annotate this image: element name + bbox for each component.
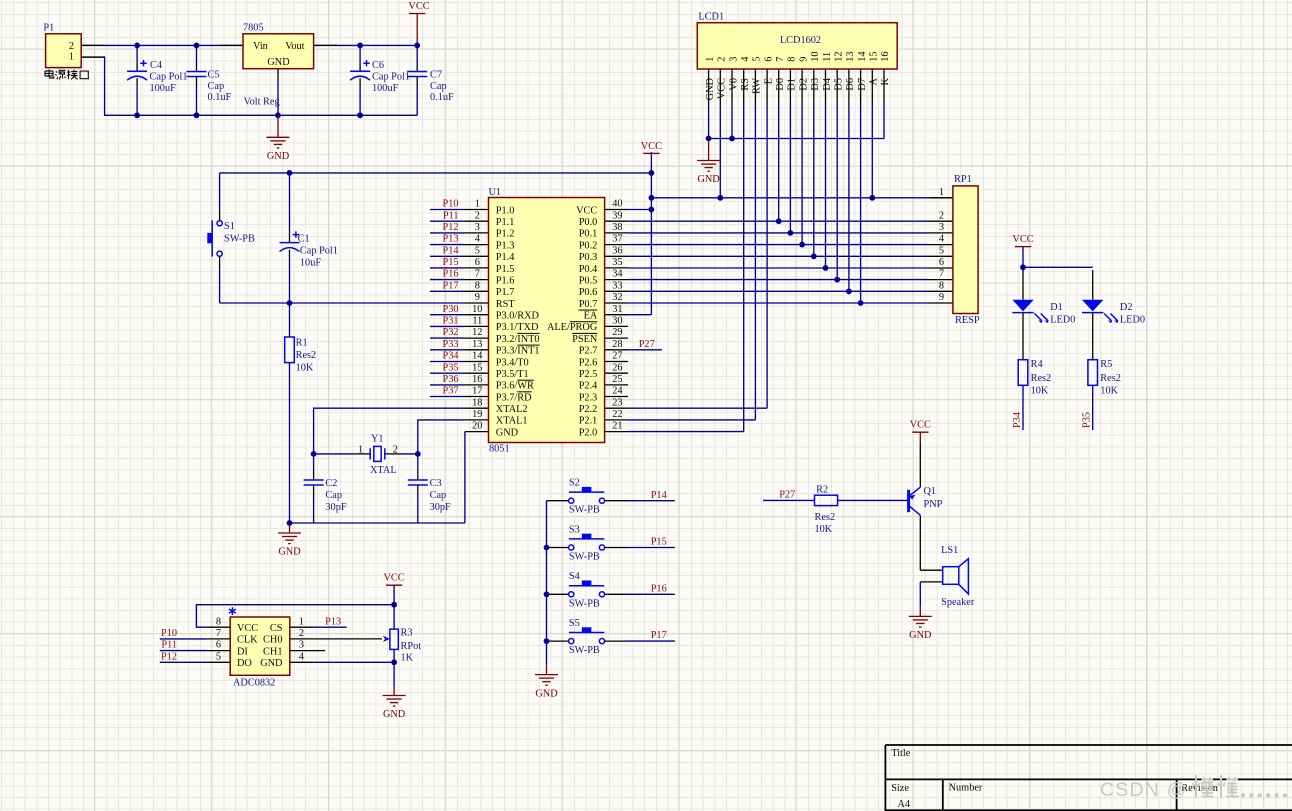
svg-text:28: 28 <box>612 339 622 350</box>
svg-text:5: 5 <box>752 57 763 62</box>
svg-text:R5: R5 <box>1100 359 1112 370</box>
svg-text:P12: P12 <box>161 651 177 662</box>
svg-text:100uF: 100uF <box>150 83 177 94</box>
svg-text:P1.7: P1.7 <box>496 287 515 298</box>
svg-text:100uF: 100uF <box>372 83 399 94</box>
svg-text:P2.3: P2.3 <box>579 392 598 403</box>
svg-text:8: 8 <box>475 280 480 291</box>
svg-text:10K: 10K <box>1031 386 1049 397</box>
svg-text:XTAL1: XTAL1 <box>496 416 528 427</box>
svg-text:38: 38 <box>612 222 622 233</box>
svg-text:8051: 8051 <box>489 443 510 454</box>
svg-text:2: 2 <box>393 444 398 455</box>
svg-text:Vin: Vin <box>253 41 268 52</box>
svg-text:P0.2: P0.2 <box>579 240 598 251</box>
svg-text:P3.2/INT0: P3.2/INT0 <box>496 334 540 345</box>
svg-text:P3.6/WR: P3.6/WR <box>496 381 534 392</box>
svg-text:9: 9 <box>475 292 480 303</box>
svg-text:1: 1 <box>299 616 304 627</box>
svg-text:S2: S2 <box>569 478 580 489</box>
svg-text:C1: C1 <box>298 233 310 244</box>
svg-text:Res2: Res2 <box>296 350 317 361</box>
svg-text:3: 3 <box>939 222 944 233</box>
svg-text:DO: DO <box>237 658 252 669</box>
svg-text:3: 3 <box>475 222 480 233</box>
svg-text:SW-PB: SW-PB <box>569 552 600 563</box>
svg-text:A4: A4 <box>898 799 911 810</box>
svg-text:P2.6: P2.6 <box>579 357 598 368</box>
svg-text:GND: GND <box>909 630 932 641</box>
svg-text:CSDN @: CSDN @ <box>1100 779 1188 801</box>
svg-text:VCC: VCC <box>717 78 728 99</box>
svg-text:P12: P12 <box>442 222 458 233</box>
svg-text:P35: P35 <box>442 362 458 373</box>
svg-text:2: 2 <box>939 210 944 221</box>
svg-text:5: 5 <box>939 245 944 256</box>
svg-text:20: 20 <box>472 421 482 432</box>
svg-text:C4: C4 <box>150 60 162 71</box>
svg-text:XTAL: XTAL <box>370 465 397 476</box>
svg-text:4: 4 <box>299 651 304 662</box>
svg-text:15: 15 <box>869 52 880 62</box>
svg-text:32: 32 <box>612 292 622 303</box>
svg-text:P34: P34 <box>442 351 458 362</box>
svg-text:14: 14 <box>857 52 868 62</box>
svg-text:C5: C5 <box>208 69 220 80</box>
svg-text:Cap Pol1: Cap Pol1 <box>300 246 338 257</box>
svg-text:P0.4: P0.4 <box>579 264 598 275</box>
svg-text:P16: P16 <box>651 583 667 594</box>
svg-text:Y1: Y1 <box>371 433 384 444</box>
svg-text:4: 4 <box>939 234 944 245</box>
svg-text:Cap Pol1: Cap Pol1 <box>372 72 410 83</box>
svg-text:K: K <box>880 77 891 85</box>
svg-text:P2.0: P2.0 <box>579 427 598 438</box>
svg-text:6: 6 <box>763 57 774 62</box>
svg-text:1: 1 <box>939 187 944 198</box>
svg-text:P0.1: P0.1 <box>579 229 598 240</box>
svg-text:D6: D6 <box>845 78 856 91</box>
svg-text:18: 18 <box>472 397 482 408</box>
svg-text:30pF: 30pF <box>430 502 451 513</box>
svg-text:7805: 7805 <box>243 22 264 33</box>
svg-text:P1.2: P1.2 <box>496 229 515 240</box>
svg-text:P34: P34 <box>1012 412 1023 428</box>
svg-text:VCC: VCC <box>1012 234 1033 245</box>
svg-text:11: 11 <box>472 316 482 327</box>
svg-text:GND: GND <box>697 174 720 185</box>
svg-text:RST: RST <box>496 299 516 310</box>
svg-text:21: 21 <box>612 421 622 432</box>
svg-text:LCD1602: LCD1602 <box>780 35 821 46</box>
svg-text:RESP: RESP <box>955 315 980 326</box>
svg-text:R2: R2 <box>816 485 828 496</box>
svg-text:P1.6: P1.6 <box>496 275 515 286</box>
svg-text:P27: P27 <box>779 490 795 501</box>
svg-text:5: 5 <box>216 651 221 662</box>
svg-text:V0: V0 <box>728 78 739 91</box>
svg-text:Title: Title <box>891 748 911 759</box>
svg-text:P0.0: P0.0 <box>579 217 598 228</box>
svg-text:P2.1: P2.1 <box>579 416 598 427</box>
svg-text:D3: D3 <box>810 78 821 91</box>
svg-text:5: 5 <box>475 245 480 256</box>
svg-text:P3.0/RXD: P3.0/RXD <box>496 311 540 322</box>
svg-text:10: 10 <box>472 304 482 315</box>
svg-text:10: 10 <box>810 52 821 62</box>
svg-text:SW-PB: SW-PB <box>224 234 255 245</box>
svg-text:P3.5/T1: P3.5/T1 <box>496 369 529 380</box>
svg-text:GND: GND <box>278 547 301 558</box>
svg-text:15: 15 <box>472 362 482 373</box>
svg-text:P2.7: P2.7 <box>579 346 598 357</box>
svg-text:C7: C7 <box>430 69 442 80</box>
svg-text:GND: GND <box>496 427 519 438</box>
svg-text:CH0: CH0 <box>263 635 282 646</box>
svg-text:26: 26 <box>612 362 622 373</box>
svg-text:R3: R3 <box>401 628 413 639</box>
svg-text:3: 3 <box>299 640 304 651</box>
svg-text:R1: R1 <box>296 338 308 349</box>
svg-text:P1.3: P1.3 <box>496 240 515 251</box>
svg-text:P3.1/TXD: P3.1/TXD <box>496 322 539 333</box>
svg-text:29: 29 <box>612 327 622 338</box>
svg-text:P2.5: P2.5 <box>579 369 598 380</box>
svg-text:7: 7 <box>475 269 480 280</box>
svg-text:D4: D4 <box>822 78 833 91</box>
svg-text:Cap: Cap <box>430 81 447 92</box>
svg-text:8: 8 <box>216 616 221 627</box>
svg-text:0.1uF: 0.1uF <box>208 92 232 103</box>
svg-text:VCC: VCC <box>576 205 597 216</box>
svg-text:2: 2 <box>717 57 728 62</box>
svg-text:GND: GND <box>260 658 283 669</box>
svg-text:PNP: PNP <box>924 499 943 510</box>
svg-text:P27: P27 <box>639 339 655 350</box>
svg-text:Res2: Res2 <box>1031 373 1052 384</box>
svg-text:D1: D1 <box>1050 302 1063 313</box>
svg-text:4: 4 <box>475 234 480 245</box>
svg-text:13: 13 <box>472 339 482 350</box>
svg-text:GND: GND <box>267 57 290 68</box>
svg-text:27: 27 <box>612 351 622 362</box>
svg-text:GND: GND <box>383 709 406 720</box>
svg-text:4: 4 <box>740 57 751 62</box>
svg-text:C6: C6 <box>372 60 384 71</box>
svg-text:P3.4/T0: P3.4/T0 <box>496 357 529 368</box>
svg-text:RS: RS <box>740 78 751 91</box>
svg-text:Res2: Res2 <box>815 512 836 523</box>
svg-text:P2.4: P2.4 <box>579 381 598 392</box>
svg-text:2: 2 <box>299 628 304 639</box>
svg-text:12: 12 <box>472 327 482 338</box>
svg-text:Vout: Vout <box>285 41 304 52</box>
svg-text:RP1: RP1 <box>954 174 972 185</box>
svg-text:CS: CS <box>270 623 283 634</box>
svg-text:3: 3 <box>728 57 739 62</box>
svg-text:Res2: Res2 <box>1100 373 1121 384</box>
svg-text:Q1: Q1 <box>924 486 937 497</box>
svg-text:1K: 1K <box>401 653 414 664</box>
svg-text:36: 36 <box>612 245 622 256</box>
svg-text:6: 6 <box>939 257 944 268</box>
svg-text:VCC: VCC <box>641 141 662 152</box>
svg-text:XTAL2: XTAL2 <box>496 404 528 415</box>
svg-text:ALE/PROG: ALE/PROG <box>547 322 598 333</box>
svg-text:10K: 10K <box>1100 386 1118 397</box>
svg-text:P11: P11 <box>161 640 177 651</box>
svg-text:RPot: RPot <box>401 641 422 652</box>
svg-text:P32: P32 <box>442 327 458 338</box>
svg-text:P35: P35 <box>1082 412 1093 428</box>
svg-text:14: 14 <box>472 351 482 362</box>
svg-text:Cap Pol1: Cap Pol1 <box>150 72 188 83</box>
svg-text:D0: D0 <box>775 78 786 91</box>
svg-text:CH1: CH1 <box>263 646 282 657</box>
svg-text:D1: D1 <box>787 78 798 91</box>
svg-text:P14: P14 <box>651 490 667 501</box>
svg-text:Cap: Cap <box>430 490 447 501</box>
svg-text:Speaker: Speaker <box>941 597 975 608</box>
svg-text:P3.3/INT1: P3.3/INT1 <box>496 346 540 357</box>
svg-text:D2: D2 <box>1120 302 1133 313</box>
svg-text:19: 19 <box>472 409 482 420</box>
svg-text:7: 7 <box>216 628 221 639</box>
svg-text:P1: P1 <box>43 22 54 33</box>
svg-text:30pF: 30pF <box>325 502 346 513</box>
svg-text:SW-PB: SW-PB <box>569 598 600 609</box>
svg-text:D5: D5 <box>834 78 845 91</box>
svg-text:PSEN: PSEN <box>572 334 598 345</box>
svg-text:12: 12 <box>834 52 845 62</box>
svg-text:C2: C2 <box>325 478 337 489</box>
svg-text:1: 1 <box>705 57 716 62</box>
svg-text:EA: EA <box>578 311 597 322</box>
svg-text:P17: P17 <box>442 280 458 291</box>
svg-text:30: 30 <box>612 316 622 327</box>
svg-text:S5: S5 <box>569 618 580 629</box>
svg-text:VCC: VCC <box>237 623 258 634</box>
svg-text:34: 34 <box>612 269 622 280</box>
svg-text:U1: U1 <box>489 187 502 198</box>
svg-text:SW-PB: SW-PB <box>569 505 600 516</box>
svg-text:1: 1 <box>69 51 74 62</box>
svg-text:A: A <box>869 77 880 85</box>
svg-text:VCC: VCC <box>384 573 405 584</box>
svg-text:P14: P14 <box>442 245 458 256</box>
svg-text:S4: S4 <box>569 571 580 582</box>
svg-text:1: 1 <box>358 444 363 455</box>
svg-text:P2.2: P2.2 <box>579 404 598 415</box>
svg-text:Size: Size <box>891 783 909 794</box>
svg-text:39: 39 <box>612 210 622 221</box>
svg-text:37: 37 <box>612 234 622 245</box>
svg-text:10K: 10K <box>296 363 314 374</box>
svg-text:S1: S1 <box>224 221 235 232</box>
svg-text:D2: D2 <box>798 78 809 91</box>
svg-text:GND: GND <box>535 688 558 699</box>
svg-text:P10: P10 <box>442 199 458 210</box>
svg-text:Cap: Cap <box>325 490 342 501</box>
svg-text:31: 31 <box>612 304 622 315</box>
svg-text:SW-PB: SW-PB <box>569 645 600 656</box>
svg-text:P1.5: P1.5 <box>496 264 515 275</box>
svg-text:GND: GND <box>705 77 716 100</box>
svg-text:P1.0: P1.0 <box>496 205 515 216</box>
svg-text:P16: P16 <box>442 269 458 280</box>
svg-text:P15: P15 <box>651 537 667 548</box>
svg-text:P15: P15 <box>442 257 458 268</box>
svg-text:16: 16 <box>472 374 482 385</box>
svg-text:P10: P10 <box>161 628 177 639</box>
svg-text:9: 9 <box>939 292 944 303</box>
svg-text:Number: Number <box>949 783 983 794</box>
svg-text:P33: P33 <box>442 339 458 350</box>
svg-text:25: 25 <box>612 374 622 385</box>
svg-text:2: 2 <box>475 210 480 221</box>
svg-text:10K: 10K <box>815 524 833 535</box>
svg-text:Volt Reg: Volt Reg <box>244 96 280 107</box>
svg-text:S3: S3 <box>569 524 580 535</box>
svg-text:33: 33 <box>612 280 622 291</box>
svg-text:1: 1 <box>475 199 480 210</box>
svg-text:P37: P37 <box>442 386 458 397</box>
svg-text:7: 7 <box>775 57 786 62</box>
svg-text:CLK: CLK <box>237 635 258 646</box>
svg-text:VCC: VCC <box>910 420 931 431</box>
svg-text:C3: C3 <box>430 478 442 489</box>
svg-text:P0.6: P0.6 <box>579 287 598 298</box>
svg-text:P1.1: P1.1 <box>496 217 515 228</box>
svg-text:13: 13 <box>845 52 856 62</box>
svg-text:6: 6 <box>475 257 480 268</box>
svg-text:P3.7/RD: P3.7/RD <box>496 392 532 403</box>
svg-text:RW: RW <box>752 78 763 94</box>
svg-text:8: 8 <box>939 280 944 291</box>
svg-text:VCC: VCC <box>408 1 429 12</box>
svg-text:LED0: LED0 <box>1050 315 1075 326</box>
svg-text:P0.3: P0.3 <box>579 252 598 263</box>
svg-text:LED0: LED0 <box>1120 315 1145 326</box>
svg-text:0.1uF: 0.1uF <box>430 92 454 103</box>
svg-text:6: 6 <box>216 640 221 651</box>
svg-text:LS1: LS1 <box>941 545 958 556</box>
svg-text:22: 22 <box>612 409 622 420</box>
svg-text:DI: DI <box>237 646 248 657</box>
svg-text:10uF: 10uF <box>300 258 321 269</box>
svg-text:7: 7 <box>939 269 944 280</box>
svg-text:24: 24 <box>612 386 622 397</box>
svg-text:P30: P30 <box>442 304 458 315</box>
svg-text:P31: P31 <box>442 316 458 327</box>
svg-text:E: E <box>763 78 774 84</box>
svg-text:35: 35 <box>612 257 622 268</box>
svg-text:P36: P36 <box>442 374 458 385</box>
svg-text:P13: P13 <box>442 234 458 245</box>
svg-text:P11: P11 <box>443 210 459 221</box>
svg-text:P13: P13 <box>325 616 341 627</box>
svg-text:P17: P17 <box>651 630 667 641</box>
svg-text:Cap: Cap <box>208 81 225 92</box>
svg-text:GND: GND <box>267 151 290 162</box>
svg-text:11: 11 <box>822 52 833 62</box>
svg-text:23: 23 <box>612 397 622 408</box>
svg-text:P0.5: P0.5 <box>579 275 598 286</box>
svg-text:9: 9 <box>798 57 809 62</box>
svg-text:LCD1: LCD1 <box>698 12 724 23</box>
svg-text:17: 17 <box>472 386 482 397</box>
svg-text:D7: D7 <box>857 78 868 91</box>
svg-text:40: 40 <box>612 199 622 210</box>
svg-text:16: 16 <box>880 52 891 62</box>
svg-text:R4: R4 <box>1031 359 1043 370</box>
svg-text:P0.7: P0.7 <box>579 299 598 310</box>
svg-text:ADC0832: ADC0832 <box>233 678 275 689</box>
svg-text:P1.4: P1.4 <box>496 252 515 263</box>
svg-text:8: 8 <box>787 57 798 62</box>
